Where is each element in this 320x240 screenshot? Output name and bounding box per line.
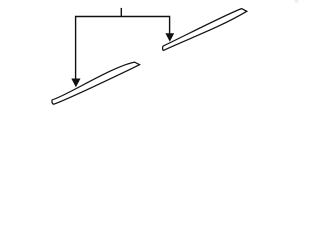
right blade (tapered molding strip, upper-right)	[163, 9, 247, 51]
faint artifact top-right	[295, 0, 299, 3]
left blade (tapered molding strip, lower-left)	[52, 62, 140, 104]
center tick	[120, 8, 122, 17]
left arrowhead	[71, 79, 80, 88]
callout bracket: left drop, horizontal bar, right drop	[76, 17, 170, 80]
right arrowhead	[165, 33, 174, 42]
